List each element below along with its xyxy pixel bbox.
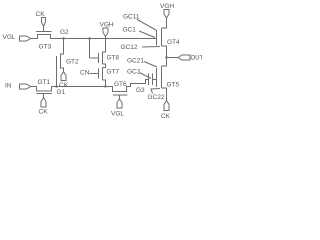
svg-text:VGH: VGH	[100, 22, 114, 29]
svg-text:VGL: VGL	[111, 111, 124, 118]
svg-text:GT2: GT2	[66, 59, 79, 66]
svg-text:CN: CN	[80, 70, 90, 77]
svg-text:CK: CK	[36, 11, 46, 18]
svg-text:GT5: GT5	[167, 82, 180, 89]
svg-text:OUT: OUT	[191, 56, 203, 62]
svg-text:G2: G2	[60, 29, 69, 36]
svg-text:GC21: GC21	[127, 58, 144, 65]
svg-text:GT6: GT6	[114, 81, 127, 88]
svg-text:CK: CK	[59, 82, 69, 89]
svg-text:VGH: VGH	[160, 3, 174, 10]
svg-text:IN: IN	[5, 83, 12, 90]
svg-text:GC22: GC22	[148, 94, 165, 101]
svg-text:GT8: GT8	[107, 55, 120, 62]
svg-text:GC12: GC12	[121, 44, 138, 51]
svg-text:GC1: GC1	[123, 27, 137, 34]
svg-text:G3: G3	[136, 87, 145, 94]
svg-text:CK: CK	[161, 113, 171, 120]
svg-text:G1: G1	[57, 89, 66, 96]
svg-text:GT1: GT1	[38, 79, 51, 86]
svg-text:CK: CK	[39, 109, 49, 116]
svg-text:GC2: GC2	[127, 69, 141, 76]
svg-text:GT3: GT3	[39, 44, 52, 51]
svg-text:VGL: VGL	[3, 34, 16, 41]
svg-text:GT4: GT4	[167, 39, 180, 46]
svg-text:GT7: GT7	[107, 69, 120, 76]
svg-text:GC11: GC11	[123, 14, 140, 21]
